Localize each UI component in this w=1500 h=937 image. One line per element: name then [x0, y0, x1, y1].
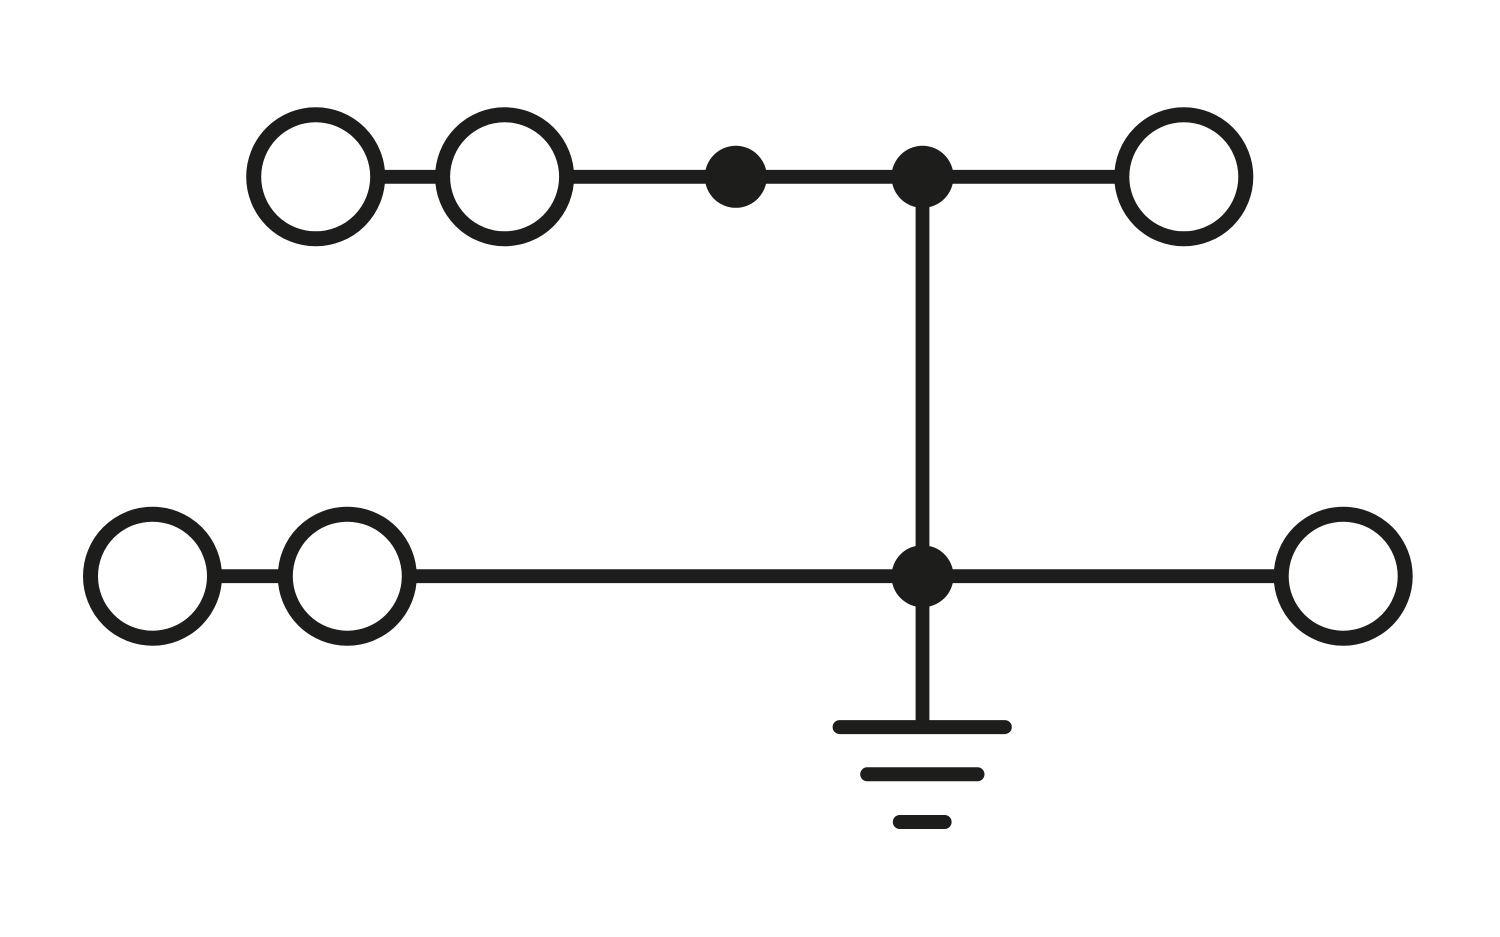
- terminal circle A1 top-left outer: [254, 115, 378, 239]
- wire vertical link from top bus junction down to bottom bus and ground: [916, 177, 930, 727]
- terminal circle A3 top-right: [1122, 115, 1246, 239]
- wire bottom bus from second terminal to far-right terminal: [347, 569, 1343, 583]
- ground bar 3 (bottom, shortest): [900, 815, 945, 829]
- terminal circle A2 top-left inner: [443, 115, 567, 239]
- terminal circle B2 bottom-left inner: [285, 514, 409, 638]
- node junction dot bottom bus / vertical link: [892, 545, 954, 607]
- wire top jumper between left terminals: [316, 170, 505, 184]
- wire bottom jumper between left terminals: [153, 569, 348, 583]
- node dot on top bus: [705, 146, 767, 208]
- terminal circle B1 bottom-left outer: [91, 514, 215, 638]
- node T-junction dot top bus / vertical link: [892, 146, 954, 208]
- ground bar 2 (middle): [867, 767, 977, 781]
- wire top bus from second terminal to right terminal: [505, 170, 1184, 184]
- ground bar 1 (top, widest): [840, 720, 1005, 734]
- terminal circle B3 bottom-right: [1281, 514, 1405, 638]
